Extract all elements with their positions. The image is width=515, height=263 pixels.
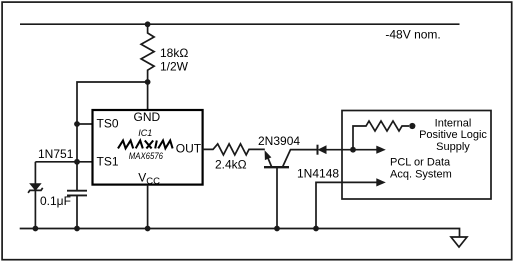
svg-text:1/2W: 1/2W [160, 59, 189, 73]
svg-text:1N4148: 1N4148 [297, 166, 339, 180]
svg-text:IC1: IC1 [138, 128, 152, 138]
svg-text:-48V nom.: -48V nom. [385, 28, 440, 42]
svg-text:Internal: Internal [435, 117, 472, 129]
svg-text:MAX6576: MAX6576 [129, 151, 164, 162]
svg-text:Supply: Supply [436, 141, 470, 153]
svg-text:0.1μF: 0.1μF [40, 194, 71, 208]
svg-text:2.4kΩ: 2.4kΩ [215, 157, 247, 171]
svg-text:1N751: 1N751 [38, 147, 74, 161]
svg-text:2N3904: 2N3904 [258, 134, 300, 148]
svg-text:PCL or Data: PCL or Data [390, 156, 451, 168]
svg-text:Positive Logic: Positive Logic [419, 129, 487, 141]
svg-text:GND: GND [134, 110, 161, 124]
svg-text:TS1: TS1 [97, 154, 119, 168]
svg-text:Acq. System: Acq. System [390, 169, 452, 181]
svg-text:OUT: OUT [176, 141, 202, 155]
svg-text:18kΩ: 18kΩ [160, 46, 188, 60]
svg-text:TS0: TS0 [97, 116, 119, 130]
